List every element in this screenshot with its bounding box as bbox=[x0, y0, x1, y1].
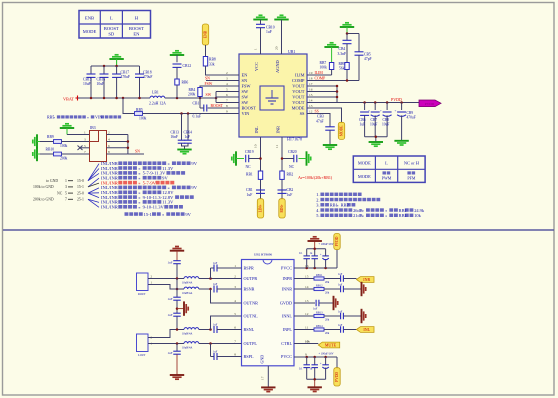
svg-text:1uF: 1uF bbox=[338, 311, 343, 314]
capacitor CB5 bbox=[355, 52, 372, 81]
node bottom rail junction bbox=[313, 378, 316, 381]
inductor LB3 bbox=[182, 287, 199, 295]
svg-text:UB1: UB1 bbox=[288, 50, 295, 54]
svg-text:PWM: PWM bbox=[382, 176, 392, 181]
svg-text:SW: SW bbox=[242, 95, 249, 100]
svg-text:SS: SS bbox=[315, 110, 319, 114]
text mode selection options bbox=[33, 179, 84, 202]
capacitor CB35 bbox=[213, 324, 218, 334]
svg-text:INPL: INPL bbox=[283, 327, 293, 332]
svg-text:5: 5 bbox=[84, 144, 86, 148]
power ground (CB13/CB64) bbox=[177, 150, 191, 154]
node OUTPL tap bbox=[176, 342, 179, 345]
power ground (cap bank) bbox=[109, 55, 123, 66]
node COMP junction bbox=[346, 79, 349, 82]
capacitor CB22 bbox=[278, 188, 294, 197]
signal ground (mid) bbox=[184, 301, 188, 315]
wire CB36 to pin8 bbox=[217, 356, 242, 358]
svg-text:UB2 HT8696: UB2 HT8696 bbox=[254, 253, 272, 257]
resistor RB10 bbox=[46, 148, 68, 161]
wire JB1 to OUTNR bbox=[148, 285, 184, 290]
svg-text:9V: 9V bbox=[191, 161, 197, 166]
node PVCC9 junctions bbox=[305, 356, 326, 359]
svg-text:MODE: MODE bbox=[358, 161, 371, 166]
svg-text:VIN: VIN bbox=[242, 111, 251, 116]
svg-text:15-1: 15-1 bbox=[77, 185, 84, 189]
capacitor CB42 bbox=[319, 243, 334, 268]
svg-text:5-7-9V: 5-7-9V bbox=[143, 180, 157, 185]
node OUTPR tap bbox=[176, 277, 179, 280]
svg-text:CB3: CB3 bbox=[317, 115, 324, 119]
wire RB5 to VIN bbox=[143, 113, 240, 115]
svg-text:0.1: 0.1 bbox=[299, 252, 303, 255]
tag PVDD top bbox=[334, 234, 340, 250]
svg-text:1: 1 bbox=[65, 179, 67, 183]
wire JB1 to OUTPR bbox=[148, 278, 184, 280]
wire GVDD chain bbox=[294, 296, 338, 311]
svg-text:ROUT: ROUT bbox=[138, 293, 146, 296]
wire SW rail bbox=[165, 97, 216, 99]
svg-text:to GND: to GND bbox=[46, 179, 58, 183]
wire FSW pin bbox=[200, 82, 239, 88]
resistor-cap chain INNR bbox=[294, 282, 366, 296]
svg-text:NC: NC bbox=[246, 165, 252, 169]
signal ground (R top) bbox=[170, 247, 184, 261]
svg-text:BOOST: BOOST bbox=[242, 106, 257, 111]
svg-text:VBAT: VBAT bbox=[63, 96, 74, 101]
svg-text:RB7: RB7 bbox=[320, 61, 327, 65]
wire RB7 to ILIM pin bbox=[307, 70, 332, 76]
node VOUT bus junctions bbox=[336, 85, 339, 99]
svg-text:1: 1 bbox=[254, 48, 258, 50]
wire PVCC16 top rail bbox=[307, 241, 326, 249]
node PVDD rail junctions bbox=[363, 101, 403, 104]
node SW rail junctions bbox=[176, 97, 218, 100]
svg-text:+: + bbox=[380, 109, 382, 113]
svg-text:10k: 10k bbox=[305, 339, 310, 343]
svg-text:RB14: RB14 bbox=[316, 325, 323, 328]
power ground (RB7) bbox=[324, 43, 338, 63]
resistor RB5 bbox=[135, 108, 147, 121]
node OUTPR bootstrap tap bbox=[209, 277, 212, 280]
svg-text:PVDD: PVDD bbox=[335, 372, 339, 382]
wire PVDD rail bbox=[337, 97, 419, 103]
svg-text:RB5: RB5 bbox=[136, 108, 143, 112]
svg-text:1uF: 1uF bbox=[213, 351, 218, 354]
capacitor CB18 bbox=[135, 66, 152, 98]
wire SS pin bbox=[307, 110, 330, 127]
svg-text:FSW: FSW bbox=[205, 82, 213, 86]
svg-text:MUTE: MUTE bbox=[325, 343, 337, 348]
node OUTNR bootstrap tap bbox=[209, 288, 212, 291]
svg-text:20k: 20k bbox=[325, 332, 330, 335]
svg-text:BOOST: BOOST bbox=[211, 104, 224, 108]
text mode conclusion bbox=[125, 212, 192, 217]
svg-text:20: 20 bbox=[275, 46, 279, 50]
wire JB2 to OUTNL bbox=[148, 330, 184, 338]
svg-text:NC: NC bbox=[57, 191, 63, 195]
svg-text:LB1: LB1 bbox=[152, 91, 159, 95]
svg-text:SW: SW bbox=[242, 100, 249, 105]
wire gnd to RB9 bbox=[40, 141, 54, 143]
svg-text:1.: 1. bbox=[316, 192, 319, 197]
svg-text:BSNL: BSNL bbox=[244, 327, 255, 332]
wire mid gnd stub bbox=[177, 308, 184, 310]
wire RB9 to IB3 pin3 bbox=[62, 141, 90, 143]
svg-text:ILIM: ILIM bbox=[315, 71, 324, 75]
wire PVCC16 rail bbox=[294, 250, 337, 269]
text gain setup steps bbox=[316, 192, 425, 218]
port PVDD arrow bbox=[419, 100, 441, 107]
wire VOUT bus bbox=[307, 86, 337, 103]
wire OUTPL to pin7 bbox=[199, 343, 242, 345]
svg-text:4.: 4. bbox=[316, 208, 319, 213]
wire BOOST pin bbox=[208, 104, 239, 108]
resistor RB8 bbox=[203, 57, 216, 67]
node OUTNL tap bbox=[176, 328, 179, 331]
svg-text:5: 5 bbox=[65, 191, 67, 195]
resistor RB6 bbox=[175, 79, 189, 85]
capacitor CB16 bbox=[97, 66, 109, 98]
wire RB6 to SW rail bbox=[176, 85, 178, 98]
svg-text:INPR: INPR bbox=[282, 276, 292, 281]
wire bootstrap BSPL bbox=[211, 344, 215, 357]
svg-text:7: 7 bbox=[84, 150, 86, 154]
svg-text:25-0: 25-0 bbox=[77, 191, 84, 195]
svg-text:1uF: 1uF bbox=[360, 123, 366, 127]
capacitor CB3 bbox=[316, 115, 335, 131]
svg-text:CB12: CB12 bbox=[183, 64, 192, 68]
svg-text:RB9: RB9 bbox=[47, 135, 54, 139]
tag LIN+ bbox=[257, 199, 263, 218]
svg-text:1uF: 1uF bbox=[185, 135, 191, 139]
svg-text:CB7: CB7 bbox=[371, 118, 378, 122]
table MODE pwm/pfm bbox=[353, 156, 425, 182]
svg-text:BSNR: BSNR bbox=[244, 287, 255, 292]
power ground (RB10) bbox=[33, 147, 40, 161]
tag ENB bbox=[202, 24, 208, 45]
power ground (CB3) bbox=[323, 145, 337, 149]
svg-text:33k: 33k bbox=[209, 63, 215, 67]
svg-text:CB2: CB2 bbox=[287, 188, 294, 192]
wire RB8 to EN pin bbox=[206, 66, 240, 75]
svg-text:AGND: AGND bbox=[275, 60, 280, 73]
wire mid rail bbox=[176, 300, 178, 313]
inductor LB1 bbox=[149, 91, 166, 106]
wire gnd to RB10 bbox=[40, 153, 54, 155]
svg-text:1uF: 1uF bbox=[287, 193, 293, 197]
tag PVDD bottom bbox=[334, 368, 340, 386]
wire IB3 right bus bbox=[107, 135, 128, 155]
capacitor CB4 bbox=[338, 34, 352, 57]
capacitor CB33 bbox=[168, 297, 181, 301]
svg-text:INL/INR: INL/INR bbox=[101, 205, 119, 210]
svg-text:100k to GND: 100k to GND bbox=[33, 185, 54, 189]
svg-text:OUTPR: OUTPR bbox=[244, 276, 258, 281]
resistor RB2 bbox=[280, 171, 294, 179]
power ground (CB20) bbox=[299, 151, 311, 165]
svg-text:25-1: 25-1 bbox=[77, 198, 84, 202]
svg-text:CTRL: CTRL bbox=[281, 341, 292, 346]
node top rail junction bbox=[313, 248, 316, 251]
svg-text:OUTNL: OUTNL bbox=[244, 314, 259, 319]
wire CB35 to pin6 bbox=[217, 329, 242, 331]
capacitor CB64 bbox=[184, 114, 193, 144]
svg-text:CB10: CB10 bbox=[266, 26, 275, 30]
resistor-cap chain INPL bbox=[294, 324, 374, 335]
svg-text:RB10: RB10 bbox=[46, 148, 55, 152]
wire INL pin down bbox=[260, 137, 262, 199]
resistor RB9 comp bbox=[339, 46, 350, 71]
inductor LB4 bbox=[182, 328, 199, 336]
resistor RB9 bbox=[47, 135, 68, 148]
svg-text:21dB: 21dB bbox=[353, 213, 363, 218]
svg-text:CB18: CB18 bbox=[143, 71, 152, 75]
wire CB10 to VCC pin bbox=[260, 28, 262, 54]
svg-text:GVDD: GVDD bbox=[280, 301, 292, 306]
node OUTNL bootstrap tap bbox=[209, 328, 212, 331]
capacitor CB17 bbox=[112, 66, 130, 98]
svg-text:11: 11 bbox=[275, 144, 279, 148]
capacitor CB30 bbox=[168, 261, 181, 279]
svg-text:14: 14 bbox=[305, 285, 309, 289]
svg-text:200k: 200k bbox=[188, 93, 196, 97]
node mid ground tap bbox=[176, 307, 179, 310]
node PVCC16 junctions bbox=[305, 267, 326, 270]
svg-text:1uF: 1uF bbox=[213, 283, 218, 286]
op-amp U2 audio amp IC UB2 bbox=[242, 253, 295, 366]
svg-text:9V: 9V bbox=[191, 185, 197, 190]
svg-text:1uF: 1uF bbox=[168, 351, 173, 355]
svg-text:10uH/4A: 10uH/4A bbox=[182, 292, 192, 295]
power ground (CB12) bbox=[170, 51, 184, 63]
svg-text:VOUT: VOUT bbox=[292, 100, 305, 105]
tag RIN+ bbox=[279, 199, 285, 218]
svg-text:+: + bbox=[320, 253, 322, 257]
note RB5 function bbox=[47, 115, 121, 120]
wire CB37 to ground bbox=[176, 354, 178, 375]
power ground (CB19) bbox=[232, 151, 244, 165]
connector JB2 bbox=[137, 334, 153, 357]
svg-text:1uF: 1uF bbox=[168, 297, 173, 301]
svg-text:20k: 20k bbox=[325, 319, 330, 322]
svg-text:200k: 200k bbox=[60, 157, 68, 161]
svg-text:BOOST: BOOST bbox=[129, 26, 144, 31]
svg-text:RB1: RB1 bbox=[246, 173, 253, 177]
svg-text:1uF: 1uF bbox=[247, 193, 253, 197]
wire GND pin 17 bbox=[267, 366, 269, 388]
signal ground (PVCC top) bbox=[308, 237, 322, 241]
wire gnd to IB3 pin1 bbox=[67, 134, 90, 136]
inductor LB2 bbox=[182, 277, 199, 285]
wire output caps ground rail bbox=[365, 137, 388, 142]
node OUTPL bootstrap tap bbox=[209, 342, 212, 345]
wire VBAT rail bbox=[78, 97, 151, 99]
svg-text:COMP: COMP bbox=[315, 77, 326, 81]
svg-text:RB13: RB13 bbox=[316, 312, 323, 315]
wire CB32 to pin3 bbox=[217, 288, 242, 290]
text INL/INR mode list bbox=[101, 161, 198, 210]
node INR junction bbox=[281, 157, 284, 160]
svg-text:MODE: MODE bbox=[292, 106, 305, 111]
svg-text:PFM: PFM bbox=[407, 176, 415, 181]
svg-text:13: 13 bbox=[305, 299, 309, 303]
wire COMP pin bbox=[307, 77, 359, 81]
svg-text:CB8: CB8 bbox=[383, 118, 390, 122]
wire CTRL to MUTE bbox=[294, 339, 318, 343]
svg-text:10uH/4A: 10uH/4A bbox=[182, 332, 192, 335]
power ground (AGND) bbox=[274, 15, 288, 24]
capacitor CB34 bbox=[168, 313, 181, 317]
svg-text:+: + bbox=[368, 109, 370, 113]
svg-text:VOUT: VOUT bbox=[292, 84, 305, 89]
signal ground (L bottom) bbox=[170, 375, 184, 379]
capacitor CB9 bbox=[395, 103, 416, 141]
svg-text:9: 9 bbox=[226, 110, 228, 114]
node VIN wire junctions bbox=[180, 112, 189, 115]
op-amp U1 boost IC UB1 HT71678 bbox=[239, 50, 307, 142]
capacitor CB7 bbox=[368, 103, 380, 137]
svg-text:MODE: MODE bbox=[83, 29, 97, 34]
svg-text:MODE: MODE bbox=[358, 174, 371, 179]
svg-text:9V: 9V bbox=[185, 212, 191, 217]
node top rail junctions bbox=[103, 65, 118, 68]
svg-text:VOUT: VOUT bbox=[292, 89, 305, 94]
connector JB1 bbox=[137, 273, 153, 296]
wire OUTNL to pin5 bbox=[211, 316, 242, 330]
svg-text:9-10-11.3V: 9-10-11.3V bbox=[143, 205, 165, 210]
wire AGND pin bbox=[281, 24, 283, 54]
svg-text:SW: SW bbox=[206, 93, 212, 97]
svg-text:+ 100uF/16V: + 100uF/16V bbox=[319, 243, 334, 246]
text gain formula bbox=[298, 175, 333, 180]
capacitor CB20 bbox=[282, 150, 297, 169]
resistor RB1 bbox=[246, 171, 263, 179]
wire CB31 to pin1 bbox=[217, 267, 242, 269]
svg-text:ENB: ENB bbox=[204, 30, 208, 38]
svg-text:CB5: CB5 bbox=[364, 53, 371, 57]
svg-text:+: + bbox=[395, 109, 397, 113]
section divider line bbox=[3, 229, 554, 231]
svg-text:PVDD: PVDD bbox=[335, 236, 339, 246]
svg-text:L: L bbox=[110, 16, 113, 21]
wire PVCC9 bottom rail bbox=[307, 379, 326, 387]
svg-text:CB19: CB19 bbox=[245, 150, 254, 154]
svg-text:47pF: 47pF bbox=[364, 57, 372, 61]
svg-text:2.: 2. bbox=[316, 197, 319, 202]
wire OUTNL wire bbox=[199, 329, 211, 331]
resistor RB4 bbox=[188, 88, 202, 97]
svg-text:RB9: RB9 bbox=[339, 62, 346, 66]
svg-text:SN: SN bbox=[242, 78, 248, 83]
svg-text:RB8: RB8 bbox=[209, 58, 216, 62]
svg-text:CB15: CB15 bbox=[83, 78, 92, 82]
svg-text:SS: SS bbox=[300, 111, 305, 116]
svg-text:ILIM: ILIM bbox=[295, 73, 305, 78]
node IB3 bus junctions bbox=[127, 140, 129, 149]
svg-text:LIN+: LIN+ bbox=[259, 204, 263, 212]
svg-text:RB4: RB4 bbox=[189, 88, 196, 92]
wire top rail cap bank bbox=[91, 65, 140, 67]
svg-text:1uF: 1uF bbox=[213, 262, 218, 265]
power ground (output caps) bbox=[369, 142, 383, 146]
wire INR pin down bbox=[281, 137, 283, 199]
svg-text:26dB: 26dB bbox=[353, 208, 363, 213]
power ground (RB9) bbox=[33, 134, 40, 148]
power ground (CB10) bbox=[253, 15, 267, 24]
svg-text:INNL: INNL bbox=[282, 314, 292, 319]
svg-text:HT71678: HT71678 bbox=[287, 138, 302, 142]
svg-text:12: 12 bbox=[305, 312, 309, 316]
svg-text:GND: GND bbox=[260, 355, 265, 364]
capacitor CB45 bbox=[319, 353, 334, 380]
svg-text:100k: 100k bbox=[139, 117, 147, 121]
svg-text:7: 7 bbox=[65, 198, 67, 202]
power ground (CB9) bbox=[394, 141, 408, 145]
svg-text:47nF: 47nF bbox=[316, 120, 324, 124]
svg-text:OUTNR: OUTNR bbox=[244, 301, 259, 306]
svg-text:20k: 20k bbox=[325, 292, 330, 295]
wire selection fanout lines bbox=[88, 164, 99, 208]
svg-text:SN: SN bbox=[205, 76, 210, 80]
capacitor CB32 bbox=[213, 283, 218, 293]
svg-text:RB2: RB2 bbox=[287, 173, 294, 177]
table ENB modes bbox=[79, 11, 151, 39]
signal ground (UB2 GND) bbox=[261, 387, 275, 391]
capacitor CB43 bbox=[299, 357, 310, 379]
wire IB3 pin5 stub bbox=[78, 146, 90, 151]
svg-text:SN: SN bbox=[135, 149, 140, 153]
capacitor CB6 bbox=[359, 103, 369, 137]
wire comp top bbox=[347, 34, 359, 52]
svg-text:COMP: COMP bbox=[292, 78, 305, 83]
svg-text:MODE: MODE bbox=[340, 125, 344, 136]
svg-text:INR: INR bbox=[276, 126, 281, 134]
capacitor CB41 bbox=[310, 249, 318, 268]
svg-text:FSW: FSW bbox=[242, 84, 252, 89]
wire OUTPL filter cap bbox=[176, 344, 178, 352]
svg-text:INR: INR bbox=[363, 277, 370, 282]
svg-text:VCC: VCC bbox=[254, 62, 259, 71]
wire CB3 to ground bbox=[329, 130, 331, 145]
node VBAT rail junctions bbox=[90, 97, 141, 100]
svg-text:1uF: 1uF bbox=[168, 313, 173, 317]
capacitor CB10 bbox=[256, 24, 275, 34]
node caps rail junction bbox=[375, 136, 378, 139]
svg-text:PVCC: PVCC bbox=[281, 354, 292, 359]
svg-text:1uF: 1uF bbox=[338, 273, 343, 276]
wire OUTNR to pin4 bbox=[211, 289, 242, 303]
svg-text:PVDD: PVDD bbox=[425, 102, 435, 106]
svg-text:PVCC: PVCC bbox=[281, 266, 292, 271]
svg-text:9V: 9V bbox=[162, 176, 168, 181]
svg-text:NC: NC bbox=[289, 165, 295, 169]
connector IB3 bbox=[84, 126, 110, 162]
svg-text:0.1uF: 0.1uF bbox=[193, 115, 202, 119]
svg-text:10uF: 10uF bbox=[382, 123, 389, 127]
node comp top junction bbox=[346, 32, 349, 35]
svg-text:SW: SW bbox=[242, 89, 249, 94]
svg-text:CB17: CB17 bbox=[121, 71, 130, 75]
svg-text:15: 15 bbox=[305, 275, 309, 279]
svg-text:1uF: 1uF bbox=[313, 308, 318, 311]
svg-text:EN: EN bbox=[133, 32, 140, 37]
capacitor CB19 bbox=[245, 150, 261, 169]
svg-text:CB1: CB1 bbox=[246, 188, 253, 192]
svg-text:15-1: 15-1 bbox=[144, 212, 152, 217]
resistor RB7 bbox=[320, 61, 334, 70]
svg-text:OUTPL: OUTPL bbox=[244, 341, 258, 346]
